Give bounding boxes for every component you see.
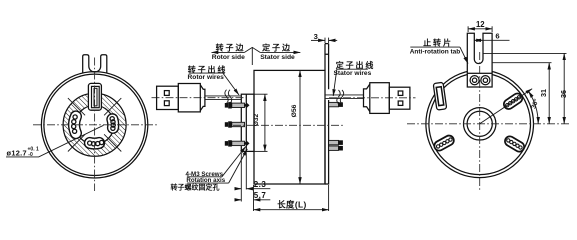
6 dimension (slot width): [474, 32, 509, 41]
svg-text:Rotor wires: Rotor wires: [188, 74, 225, 81]
svg-text:ø12.7: ø12.7: [7, 149, 27, 158]
svg-text:转子螺纹固定孔: 转子螺纹固定孔: [171, 183, 220, 192]
stator connector centerline: [329, 97, 416, 99]
5.7 dimension: [235, 185, 270, 211]
M3 screw bottom-left: [225, 140, 250, 146]
right view outer circle: [426, 70, 534, 178]
30 deg radial line: [480, 89, 532, 124]
stator wires: [325, 95, 364, 99]
wire slot capsule left: [72, 115, 78, 133]
USB port cutout (rotor face): [88, 83, 102, 111]
left view top tab with U-notch: [83, 55, 107, 73]
svg-text:止转片: 止转片: [423, 38, 453, 48]
svg-text:Rotor side: Rotor side: [212, 54, 245, 61]
wire slot capsule bottom: [88, 140, 104, 146]
rotor wires label: [188, 64, 239, 95]
left view outer circle: [41, 72, 147, 178]
12 dimension: [468, 20, 492, 32]
stator slot capsule upper-right (30 deg): [506, 96, 521, 107]
svg-text:定子边: 定子边: [261, 42, 292, 52]
M3 screw top-left: [225, 102, 250, 108]
svg-text:6: 6: [495, 32, 499, 41]
stator end plate (right, with anti-rotation tab profile): [325, 44, 329, 184]
rotor wire break mark: [225, 90, 232, 104]
dia32 dimension: [253, 94, 268, 151]
rotor USB plug contact windows: [164, 91, 169, 96]
right view vertical centerline: [479, 52, 481, 192]
30 deg angular arc: [528, 91, 538, 124]
svg-text:Ø56: Ø56: [291, 104, 298, 117]
4-M3 screws label: [171, 147, 248, 192]
stator USB plug shell: [389, 87, 410, 109]
stator wire break mark: [337, 90, 344, 104]
svg-text:3: 3: [314, 32, 318, 41]
right view inner circle: [429, 73, 531, 175]
right view horizontal centerline: [407, 123, 571, 125]
svg-text:转子边: 转子边: [216, 42, 246, 52]
left view horizontal centerline: [33, 124, 157, 126]
31 dimension: [492, 63, 551, 124]
svg-text:Stator wires: Stator wires: [334, 70, 372, 77]
svg-text:12: 12: [476, 20, 485, 29]
stator wires label: [333, 60, 375, 96]
45-degree hole centerline ticks: [68, 98, 121, 151]
tab eyelet right: [481, 76, 490, 85]
anti-rotation tab (white fill masks circle): [467, 33, 492, 87]
rotor flange plate inner line (2.3mm): [245, 94, 247, 151]
svg-text:Ø32: Ø32: [253, 113, 260, 126]
rotor USB plug shell: [157, 86, 179, 109]
left view inner circle: [44, 74, 145, 175]
left view vertical centerline: [94, 58, 96, 192]
svg-text:36: 36: [559, 90, 568, 98]
svg-text:31: 31: [539, 89, 548, 97]
rotor wires: [205, 96, 241, 100]
tab eyelet box: [467, 73, 492, 87]
svg-text:长度(L): 长度(L): [277, 200, 306, 210]
anti-rotation tab label: [410, 38, 468, 64]
M3 screw middle-left: [225, 121, 245, 127]
svg-text:2.3: 2.3: [254, 180, 267, 189]
stator USB plug contact windows: [398, 91, 403, 95]
svg-text:Stator side: Stator side: [260, 54, 295, 61]
stator M3 screws right-bottom pair: [329, 140, 343, 150]
hatched ring outer edge: [63, 93, 126, 156]
rotor USB plug body: [178, 84, 200, 112]
rotor connector centerline: [152, 97, 247, 99]
rotor flange (dia32 boss): [241, 94, 254, 151]
stator USB plug body: [370, 83, 390, 114]
hatched ring inner edge: [75, 105, 114, 144]
plate thickness 3 dimension: [311, 32, 337, 43]
stator body rectangle: [254, 70, 325, 184]
stator slot capsule lower-right: [507, 139, 522, 149]
stator face USB port cutout: [433, 82, 447, 110]
stator USB plug boot: [364, 84, 370, 111]
svg-text:Anti-rotation tab: Anti-rotation tab: [410, 49, 461, 56]
svg-text:定子出线: 定子出线: [335, 60, 376, 70]
36 dimension: [483, 53, 568, 123]
wire slot capsule right: [110, 117, 115, 131]
stator slot capsule lower-left: [436, 138, 452, 148]
tab eyelet left: [470, 76, 479, 85]
dia 12.7 bore label: [6, 125, 104, 158]
center shaft hole: [464, 108, 496, 140]
2.3 dimension: [235, 153, 270, 202]
rotor USB plug boot: [200, 85, 205, 111]
length (L) dimension: [254, 185, 329, 211]
dia56 dimension: [291, 70, 300, 184]
svg-text:5.7: 5.7: [254, 191, 267, 200]
middle view horizontal centerline: [233, 124, 344, 126]
rotor side / stator side arrows: [212, 42, 301, 65]
hatched ring (rotor face section): [63, 93, 126, 156]
stator M3 screw right-top: [329, 102, 343, 107]
